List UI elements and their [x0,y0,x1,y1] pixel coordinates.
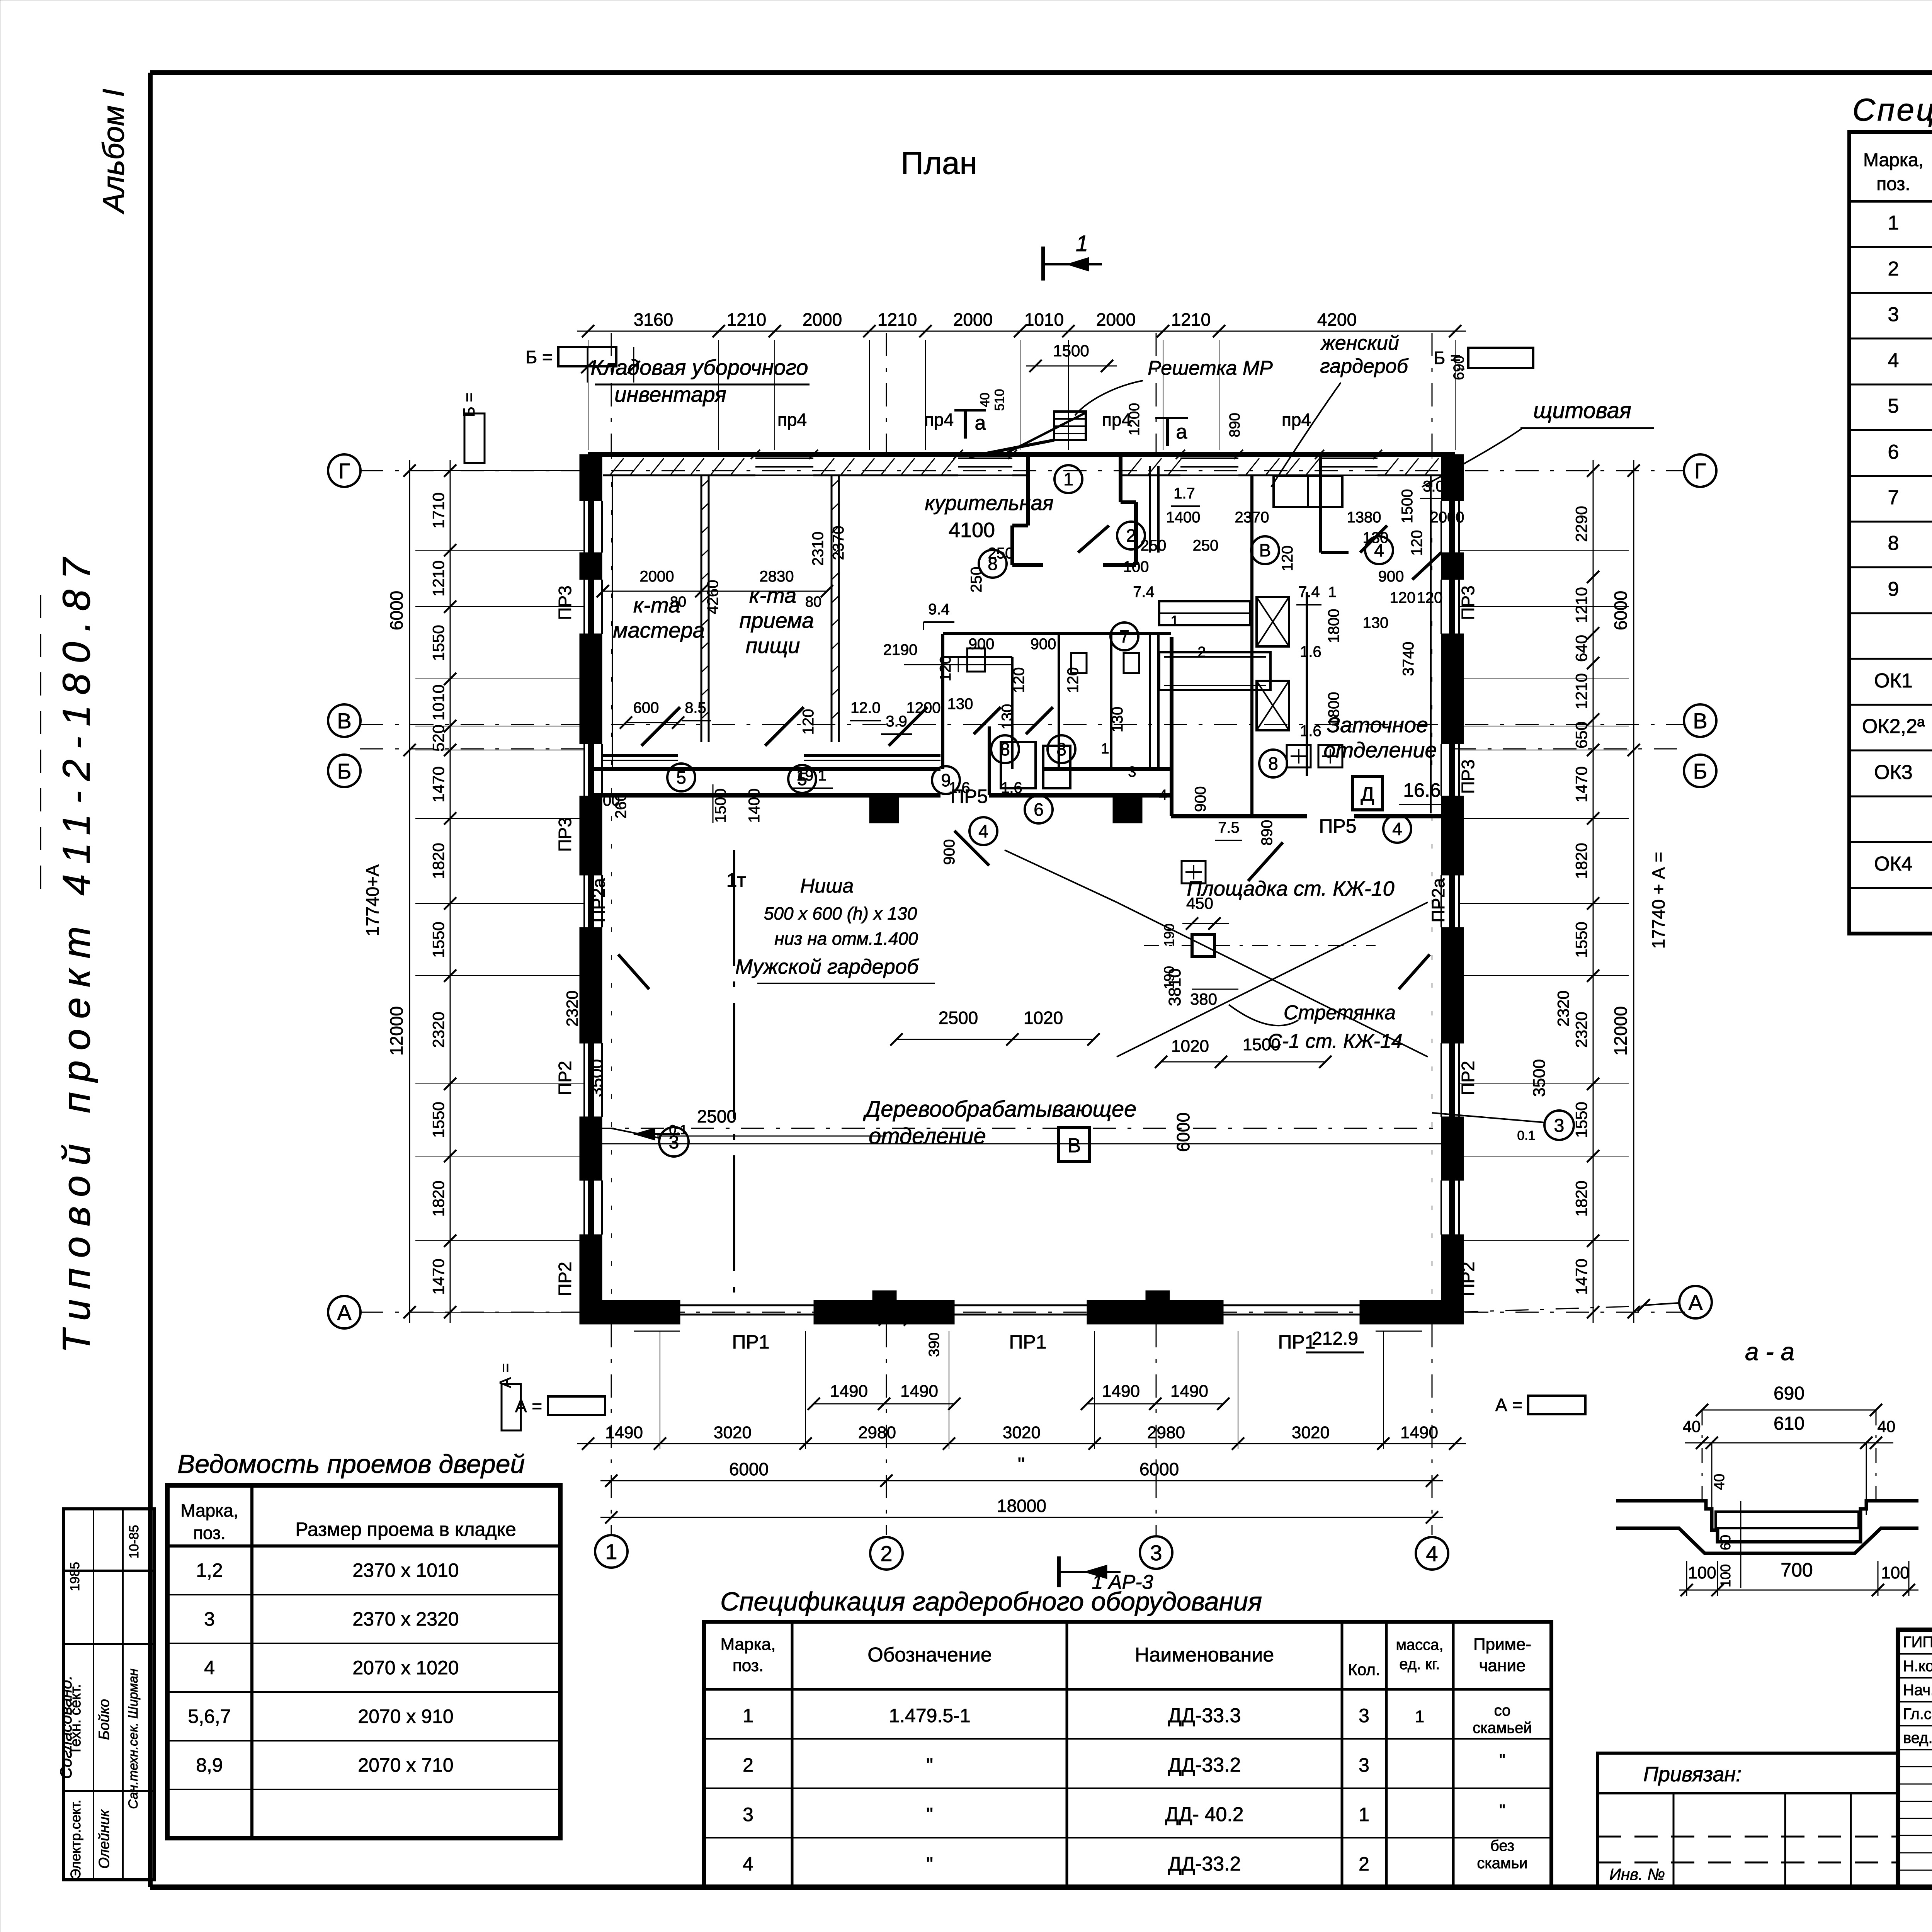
svg-text:255: 255 [910,1297,937,1315]
svg-text:1820: 1820 [1572,1180,1590,1216]
svg-text:12.0: 12.0 [850,699,881,716]
svg-text:ПР3: ПР3 [555,817,575,852]
svg-text:Б: Б [1693,759,1708,783]
svg-text:Марка,: Марка, [180,1500,238,1520]
svg-text:1210: 1210 [1171,310,1211,330]
svg-text:а: а [975,412,986,434]
inner wall face lines [612,475,613,767]
svg-text:6: 6 [1034,799,1044,820]
svg-text:380: 380 [1190,990,1217,1008]
svg-text:ПР3: ПР3 [1458,585,1478,620]
svg-text:1.479.5-1: 1.479.5-1 [889,1705,970,1726]
title block [1898,1630,1932,1887]
section mark 1 at top [1041,247,1045,281]
svg-text:120: 120 [800,709,817,735]
svg-text:130: 130 [947,696,973,713]
plan outer top wall [588,452,1455,457]
dim lines around meal room [603,591,827,592]
svg-text:А =: А = [515,1396,542,1416]
svg-text:пр4: пр4 [1102,410,1131,430]
svg-text:отделение: отделение [1323,738,1437,762]
platform block [1192,934,1214,957]
svg-text:1210: 1210 [1572,673,1590,709]
svg-text:1.6: 1.6 [1001,779,1022,796]
svg-text:Олейник: Олейник [96,1809,112,1869]
svg-text:3020: 3020 [714,1423,752,1442]
svg-text:1490: 1490 [900,1382,938,1401]
svg-text:Г: Г [338,459,350,483]
svg-text:Альбом I: Альбом I [96,88,130,214]
svg-text:1т: 1т [726,869,746,891]
svg-text:1010: 1010 [429,684,447,720]
svg-text:6000: 6000 [386,591,406,630]
svg-text:Сан.техн.сек. Ширман: Сан.техн.сек. Ширман [126,1668,141,1809]
svg-text:Д: Д [1361,783,1374,805]
axis A extension to circle [1455,1306,1644,1312]
svg-text:2370: 2370 [830,526,847,560]
section a-a drawing [1702,1410,1876,1411]
svg-text:Наименование: Наименование [1135,1644,1274,1666]
svg-text:4: 4 [1392,819,1402,839]
svg-text:": " [926,1804,933,1825]
section mark 1 АР-3 at bottom [1057,1556,1061,1587]
svg-text:пищи: пищи [746,633,800,658]
svg-text:гардероб: гардероб [1320,355,1408,378]
svg-text:2500: 2500 [939,1008,978,1028]
plan right wall [1451,454,1455,1324]
svg-text:130: 130 [999,704,1016,730]
svg-text:ПР3: ПР3 [1458,759,1478,794]
svg-text:": " [1499,1801,1505,1820]
svg-text:1.6: 1.6 [1300,643,1321,660]
svg-text:Решетка МР: Решетка МР [1148,357,1273,379]
svg-text:4: 4 [1374,540,1384,560]
svg-text:ПР5: ПР5 [1319,815,1356,837]
axis 0.1 arrows on axis 3 line [590,1128,1453,1129]
svg-text:скамьей: скамьей [1473,1719,1532,1736]
svg-text:900: 900 [1378,568,1404,585]
svg-text:1820: 1820 [1572,843,1590,879]
svg-text:3500: 3500 [587,1059,606,1097]
svg-text:1400: 1400 [1166,509,1201,526]
svg-text:6000: 6000 [1173,1112,1193,1152]
svg-text:Стретянка: Стретянка [1284,1002,1396,1024]
WC block partitions [943,632,1171,635]
svg-text:1490: 1490 [605,1423,643,1442]
svg-text:1470: 1470 [429,1259,447,1294]
svg-text:1400: 1400 [746,789,763,823]
svg-text:2: 2 [880,1541,892,1566]
right vertical dimension chains [1593,460,1594,1323]
svg-text:приема: приема [739,608,814,633]
svg-text:со: со [1494,1702,1511,1719]
svg-text:250: 250 [1193,537,1219,554]
svg-text:скамьи: скамьи [1477,1855,1527,1872]
partition meal room / smoking room [831,475,833,742]
svg-text:Деревообрабатывающее: Деревообрабатывающее [863,1097,1137,1122]
svg-text:5: 5 [797,769,807,789]
svg-text:5,6,7: 5,6,7 [188,1706,231,1727]
svg-text:ПР2: ПР2 [1458,1262,1478,1296]
axis circles left [328,454,361,487]
svg-text:4100: 4100 [949,519,995,542]
svg-text:щитовая: щитовая [1533,398,1631,423]
svg-text:2370 х 2320: 2370 х 2320 [352,1608,459,1630]
svg-text:Гл.спец: Гл.спец [1903,1706,1932,1723]
axis lines (dash-dot) [360,470,1685,471]
svg-text:2500: 2500 [697,1106,736,1126]
svg-text:1: 1 [1170,613,1179,629]
svg-text:3: 3 [1150,1541,1162,1565]
svg-text:ГИП: ГИП [1903,1634,1932,1651]
svg-text:80: 80 [805,594,821,610]
svg-text:890: 890 [1259,820,1276,846]
svg-text:без: без [1490,1837,1514,1854]
svg-text:130: 130 [645,1308,673,1327]
svg-text:1: 1 [1888,212,1899,234]
svg-text:9: 9 [1888,578,1899,600]
svg-text:1490: 1490 [1102,1382,1140,1401]
svg-text:Кладовая уборочного: Кладовая уборочного [590,355,808,379]
svg-text:поз.: поз. [733,1656,764,1675]
svg-text:1470: 1470 [1572,766,1590,802]
svg-text:Электр.сект.: Электр.сект. [68,1799,83,1879]
svg-text:2310: 2310 [810,532,827,566]
door swing leaves (diagonals) [641,707,680,746]
svg-text:ОК2,2ª: ОК2,2ª [1862,715,1925,738]
svg-text:8: 8 [1268,753,1278,774]
svg-text:2320: 2320 [563,990,581,1026]
привязан block [1598,1753,1898,1887]
svg-text:ед. кг.: ед. кг. [1399,1656,1440,1673]
wardrobe area partitions (axis B-4 zone) [1250,475,1253,634]
bottom dimension chains [814,1403,954,1405]
svg-text:3: 3 [1128,764,1136,780]
axis 3 circles inside plan [659,1127,689,1156]
left approval stamp table [63,1509,155,1880]
svg-text:3020: 3020 [1003,1423,1041,1442]
svg-text:255: 255 [859,1297,886,1315]
interior partition walls of room strip [590,767,940,771]
svg-text:Площадка ст. КЖ-10: Площадка ст. КЖ-10 [1187,877,1394,900]
svg-text:130: 130 [1384,1308,1413,1327]
svg-text:1: 1 [1415,1707,1424,1726]
svg-text:1820: 1820 [429,1180,447,1216]
svg-text:8: 8 [1056,739,1066,759]
svg-text:8: 8 [988,554,998,574]
svg-text:120: 120 [1010,667,1027,693]
svg-text:": " [1018,1454,1025,1476]
svg-text:4200: 4200 [1317,310,1357,330]
svg-text:640: 640 [1572,635,1590,662]
svg-text:40: 40 [1878,1417,1896,1435]
svg-text:Спецификация элементов запол: Спецификация элементов заполнения проемо… [1852,92,1932,128]
svg-text:1: 1 [1359,1804,1369,1825]
svg-text:1550: 1550 [429,1102,447,1138]
svg-text:130: 130 [1109,707,1126,733]
svg-text:1550: 1550 [1572,1102,1590,1138]
svg-text:130: 130 [1363,614,1389,631]
svg-text:10-85: 10-85 [127,1525,141,1559]
svg-text:450: 450 [1186,894,1213,912]
svg-text:А: А [337,1300,352,1325]
svg-text:низ на отм.1.400: низ на отм.1.400 [774,929,918,949]
svg-text:12000: 12000 [1611,1006,1631,1056]
wardrobe benches and stalls [1274,476,1342,507]
svg-text:190: 190 [1161,966,1177,989]
svg-text:ДД-33.2: ДД-33.2 [1168,1754,1241,1776]
pilasters on middle wall [869,795,899,823]
svg-text:ПР2: ПР2 [1458,1061,1478,1095]
svg-text:100: 100 [1123,558,1149,575]
svg-text:1550: 1550 [429,625,447,661]
svg-text:мастера: мастера [613,618,705,642]
svg-text:120: 120 [1417,589,1443,606]
svg-text:к-та: к-та [749,583,796,607]
svg-text:1200: 1200 [906,699,941,716]
entrance vestibule walls at axis 1 (top centre) [1026,454,1030,526]
svg-text:1.6: 1.6 [1300,723,1321,740]
svg-text:1820: 1820 [429,843,447,879]
svg-text:510: 510 [992,389,1007,411]
svg-text:1800: 1800 [1325,692,1342,726]
svg-text:3740: 3740 [1400,642,1417,676]
svg-text:3.9: 3.9 [886,713,907,730]
svg-text:600: 600 [633,699,659,716]
svg-text:1470: 1470 [1572,1259,1590,1294]
svg-text:2: 2 [1888,258,1899,280]
svg-text:1500: 1500 [1399,489,1416,524]
svg-text:60: 60 [1718,1535,1733,1550]
svg-text:женский: женский [1320,332,1399,354]
svg-text:900: 900 [1031,636,1056,653]
svg-text:поз.: поз. [1876,174,1910,194]
svg-text:1: 1 [1328,584,1336,600]
svg-text:Приме-: Приме- [1473,1635,1531,1654]
svg-text:вед.инж: вед.инж [1903,1730,1932,1747]
svg-text:1210: 1210 [429,560,447,596]
svg-text:В: В [1693,709,1707,733]
svg-text:6000: 6000 [729,1459,769,1479]
svg-text:курительная: курительная [925,492,1053,515]
svg-text:650: 650 [1572,721,1590,748]
svg-text:6000: 6000 [1611,591,1631,630]
svg-text:1: 1 [605,1539,617,1564]
svg-text:190: 190 [1161,923,1177,947]
svg-text:5: 5 [1888,395,1899,417]
svg-text:3160: 3160 [634,310,673,330]
svg-text:ПР2: ПР2 [555,1262,575,1296]
svg-text:Привязан:: Привязан: [1643,1763,1742,1786]
svg-text:120: 120 [1390,589,1416,606]
svg-text:ПР2: ПР2 [555,1061,575,1095]
svg-text:1,2: 1,2 [196,1560,223,1581]
svg-text:500 х 600 (h) х 130: 500 х 600 (h) х 130 [764,903,917,923]
svg-text:1710: 1710 [429,492,447,528]
svg-text:3: 3 [1359,1754,1369,1776]
svg-text:8.5: 8.5 [685,699,706,716]
svg-text:2320: 2320 [429,1012,447,1048]
svg-text:2070 х 910: 2070 х 910 [358,1706,453,1727]
svg-text:900: 900 [969,636,995,653]
svg-text:9: 9 [941,770,951,790]
svg-text:9.4: 9.4 [928,601,950,618]
svg-text:900: 900 [941,839,958,865]
svg-text:2320: 2320 [1572,1012,1590,1048]
svg-text:1490: 1490 [1170,1382,1208,1401]
drawing frame border [150,70,1932,75]
svg-text:2980: 2980 [858,1423,896,1442]
svg-text:4: 4 [743,1853,753,1875]
svg-text:ПР1: ПР1 [1009,1331,1046,1353]
svg-text:ПР5: ПР5 [950,786,988,807]
left vertical dimension chains [450,460,451,1323]
svg-text:Б =: Б = [526,347,553,367]
WC fixtures [967,648,985,672]
svg-text:2320: 2320 [1554,990,1572,1026]
svg-text:Бойко: Бойко [96,1699,112,1740]
svg-text:100: 100 [1688,1563,1716,1582]
svg-text:1550: 1550 [1572,922,1590,957]
svg-text:1210: 1210 [727,310,766,330]
svg-text:ПР1: ПР1 [732,1331,769,1353]
svg-text:212.9: 212.9 [1312,1328,1358,1349]
svg-text:3: 3 [743,1804,753,1825]
svg-text:1: 1 [1076,231,1088,256]
svg-text:1380: 1380 [1347,509,1381,526]
svg-text:2: 2 [1197,644,1206,660]
svg-text:1800: 1800 [1325,609,1342,643]
svg-text:чание: чание [1479,1656,1526,1675]
svg-text:1020: 1020 [1024,1008,1063,1028]
svg-text:Кол.: Кол. [1348,1660,1380,1679]
svg-text:7.4: 7.4 [1298,583,1320,600]
svg-text:": " [1499,1751,1505,1770]
svg-text:1500: 1500 [1053,342,1089,360]
svg-text:4: 4 [1888,349,1899,372]
axis circles right [1684,454,1716,487]
svg-text:12000: 12000 [386,1006,406,1056]
svg-text:3020: 3020 [1292,1423,1330,1442]
svg-text:Мужской гардероб: Мужской гардероб [735,955,919,978]
svg-text:Б =: Б = [1434,348,1461,368]
svg-text:2830: 2830 [760,568,794,585]
svg-text:2370: 2370 [1235,509,1269,526]
svg-text:1550: 1550 [429,922,447,957]
svg-text:Марка,: Марка, [721,1635,776,1654]
svg-text:1500: 1500 [1243,1035,1281,1054]
svg-text:пр4: пр4 [1282,410,1311,430]
svg-text:2000: 2000 [640,568,674,585]
svg-text:700: 700 [1781,1559,1813,1581]
svg-text:2000: 2000 [1430,509,1464,526]
svg-text:1470: 1470 [429,766,447,802]
svg-text:Обозначение: Обозначение [867,1644,992,1666]
svg-text:18000: 18000 [997,1496,1046,1516]
svg-text:План: План [901,146,977,181]
svg-text:2000: 2000 [953,310,993,330]
svg-text:6000: 6000 [1139,1459,1179,1479]
top dimension chain [577,331,1466,332]
svg-text:1210: 1210 [878,310,917,330]
svg-text:Инв. №: Инв. № [1609,1865,1665,1883]
svg-text:3: 3 [204,1608,215,1630]
svg-text:1020: 1020 [1171,1037,1209,1056]
svg-text:690: 690 [1774,1383,1804,1404]
svg-text:1: 1 [743,1705,753,1726]
svg-text:520: 520 [429,724,447,752]
svg-text:ДД-33.2: ДД-33.2 [1168,1853,1241,1875]
svg-text:610: 610 [1774,1413,1804,1434]
small arrow left [634,1133,680,1135]
svg-text:4: 4 [978,821,988,841]
svg-text:Марка,: Марка, [1863,150,1923,170]
svg-text:1985: 1985 [68,1562,82,1591]
chain extension lines [718,340,719,450]
svg-text:": " [926,1754,933,1776]
svg-text:8,9: 8,9 [196,1754,223,1776]
svg-text:2: 2 [1126,526,1136,546]
small niche wall near axis 6 [988,726,991,795]
svg-text:В: В [1259,540,1271,560]
svg-text:3: 3 [1359,1705,1369,1726]
svg-text:2980: 2980 [1147,1423,1185,1442]
svg-text:6: 6 [1888,441,1899,463]
svg-text:40: 40 [1683,1417,1701,1435]
svg-text:Г: Г [1694,459,1706,483]
svg-text:2000: 2000 [803,310,842,330]
svg-text:Б: Б [337,759,352,783]
svg-text:100: 100 [1718,1564,1733,1587]
plan left wall [588,454,593,1324]
svg-text:1: 1 [1063,469,1073,489]
svg-text:а: а [1176,421,1187,443]
svg-text:Нач.отд.: Нач.отд. [1903,1682,1932,1699]
secondary dims above entrance [1026,366,1117,367]
svg-text:ДД-33.3: ДД-33.3 [1168,1704,1241,1727]
svg-text:ОК3: ОК3 [1874,761,1913,784]
svg-text:40: 40 [1711,1474,1728,1490]
svg-text:2: 2 [1359,1853,1369,1875]
svg-text:ПР2а: ПР2а [1428,878,1448,922]
svg-text:2070 х 1020: 2070 х 1020 [352,1657,459,1679]
svg-text:8: 8 [1888,532,1899,554]
svg-text:2190: 2190 [883,641,918,658]
svg-text:80: 80 [670,594,686,610]
svg-text:ДД- 40.2: ДД- 40.2 [1165,1803,1243,1826]
svg-text:а - а: а - а [1745,1338,1794,1366]
top wall hatch strokes [611,458,624,474]
svg-text:ОК4: ОК4 [1874,853,1913,875]
svg-text:1010: 1010 [1024,310,1064,330]
svg-text:17740 + А =: 17740 + А = [1648,852,1668,949]
svg-text:120: 120 [1408,530,1425,556]
svg-text:120: 120 [1065,667,1082,693]
svg-text:": " [926,1853,933,1875]
svg-text:2070 х 710: 2070 х 710 [358,1754,453,1776]
plan bottom wall (solid with window openings PR1) [588,1300,680,1324]
svg-text:250: 250 [968,567,985,593]
svg-text:4: 4 [1159,787,1167,803]
svg-text:А =: А = [1495,1395,1522,1415]
svg-text:1200: 1200 [586,792,620,809]
svg-text:Типовой проект 411-2-180.87: Типовой проект 411-2-180.87 [55,548,98,1353]
svg-text:890: 890 [1227,413,1243,437]
svg-text:масса,: масса, [1396,1636,1443,1653]
svg-text:3.0: 3.0 [1423,478,1444,495]
svg-text:пр4: пр4 [924,410,954,430]
svg-text:Ведомость проемов дверей: Ведомость проемов дверей [177,1449,525,1479]
